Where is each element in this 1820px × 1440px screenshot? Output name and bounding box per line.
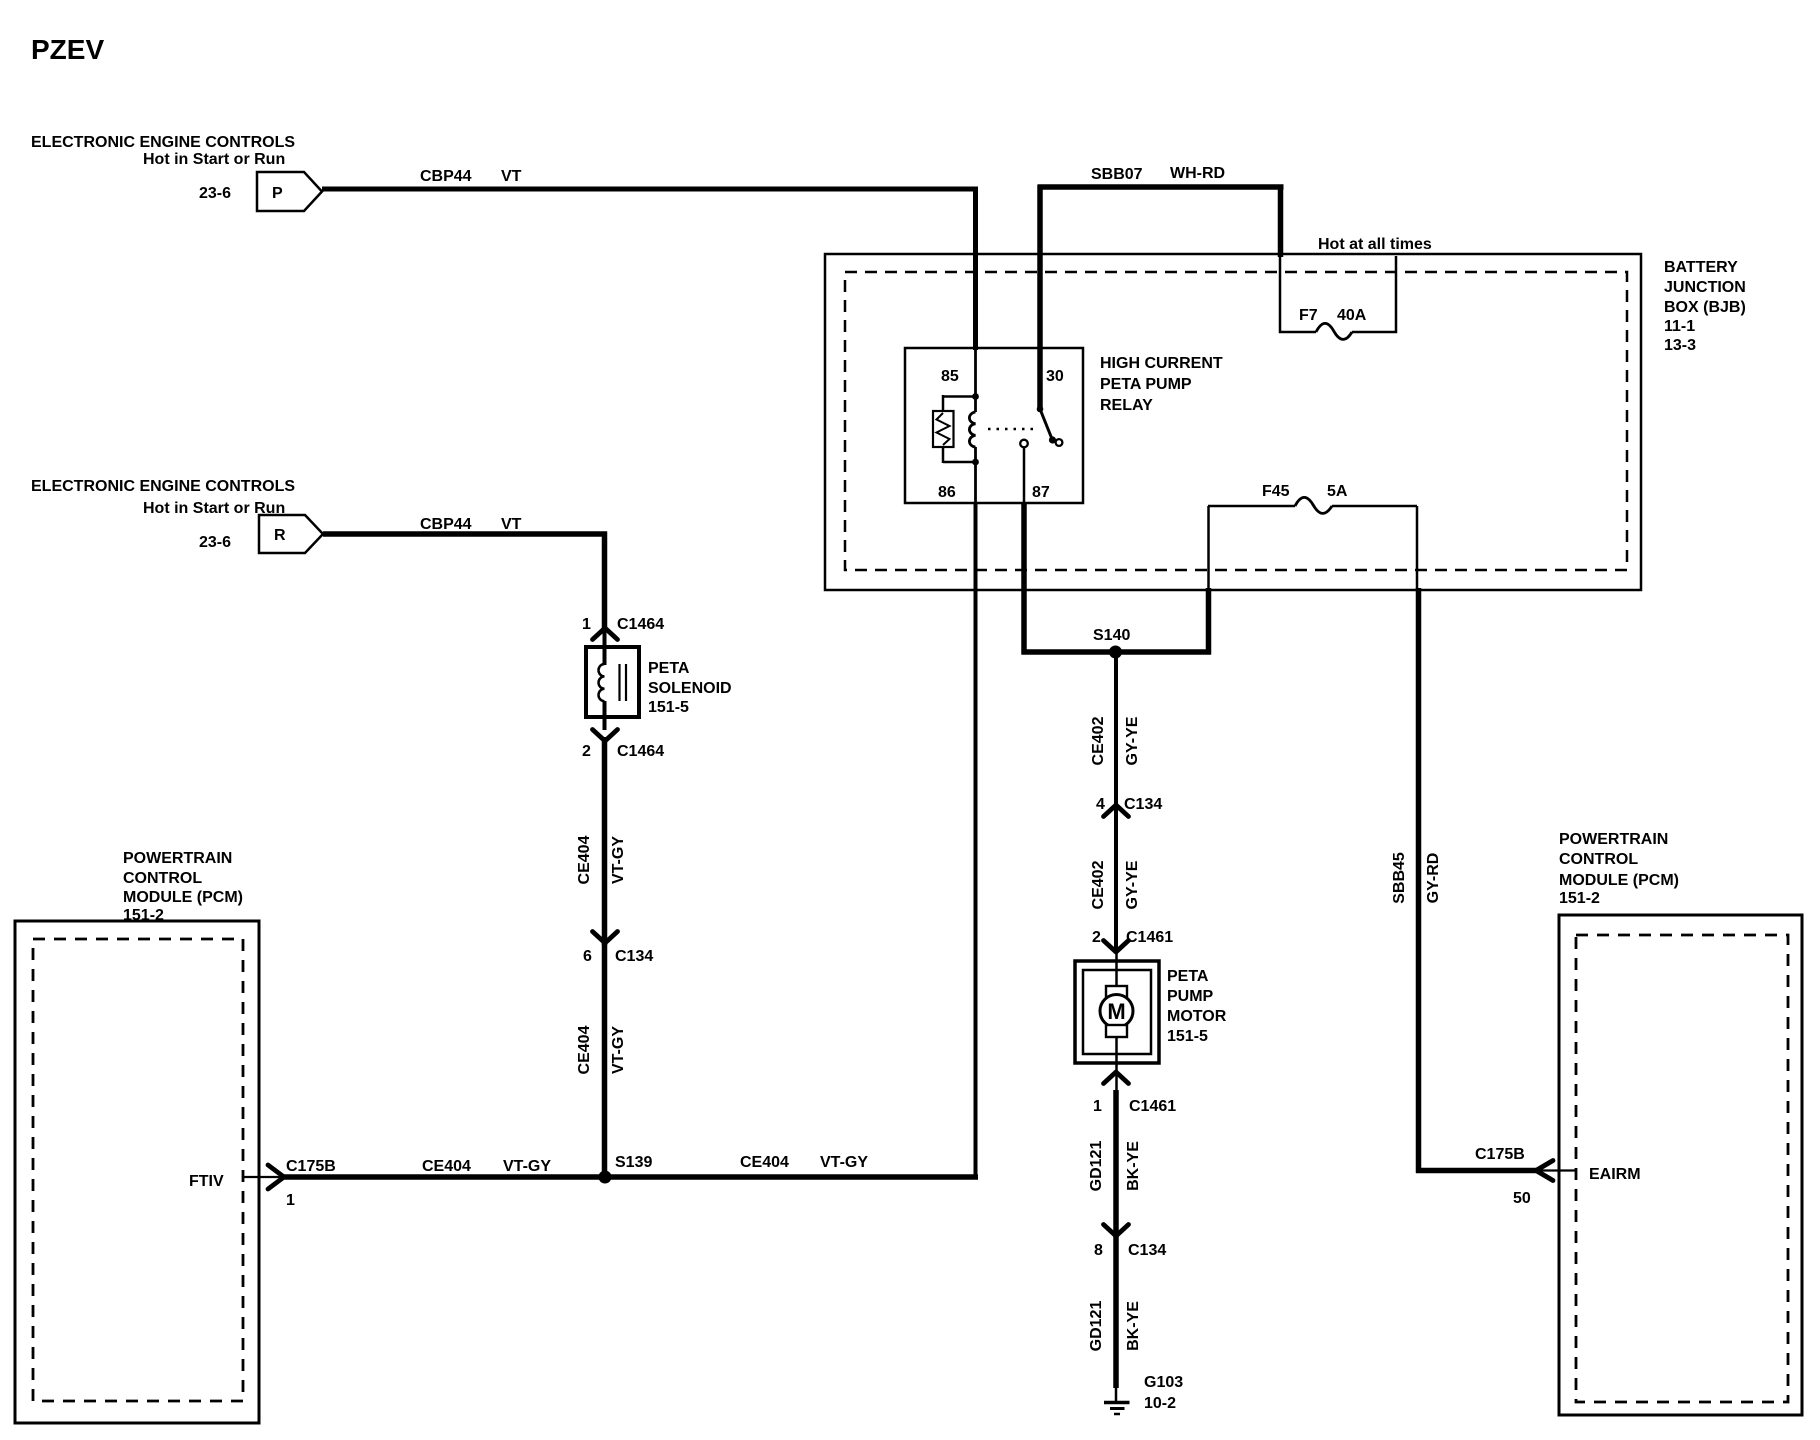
wire CE404 VT-GY FTIV to S139 bbox=[282, 1158, 607, 1177]
connector C175B pin 50 EAIRM arrow bbox=[1475, 1146, 1641, 1207]
svg-text:ELECTRONIC ENGINE CONTROLS: ELECTRONIC ENGINE CONTROLS bbox=[31, 478, 295, 495]
svg-text:C175B: C175B bbox=[1475, 1146, 1525, 1163]
wire CBP44 VT from R to solenoid bbox=[323, 516, 607, 630]
svg-text:VT-GY: VT-GY bbox=[610, 836, 627, 884]
svg-text:BOX (BJB): BOX (BJB) bbox=[1664, 299, 1746, 316]
svg-text:11-1: 11-1 bbox=[1664, 318, 1695, 335]
node: ELECTRONIC ENGINE CONTROLS feed (P) bbox=[31, 134, 295, 202]
svg-text:13-3: 13-3 bbox=[1664, 337, 1696, 354]
svg-text:85: 85 bbox=[941, 368, 959, 385]
svg-text:GY-RD: GY-RD bbox=[1425, 853, 1442, 904]
wire relay pin 87 to S140 bbox=[1023, 447, 1026, 654]
wire F45 to S140 bbox=[1206, 588, 1212, 655]
wire CE402 GY-YE C134 to C1461 bbox=[1090, 860, 1141, 909]
svg-text:CE402: CE402 bbox=[1090, 860, 1107, 909]
svg-text:GY-YE: GY-YE bbox=[1124, 860, 1141, 909]
wire CE402 GY-YE S140 to C134 bbox=[1090, 652, 1141, 952]
fuse F7 40A bbox=[1280, 256, 1396, 339]
svg-text:MODULE (PCM): MODULE (PCM) bbox=[123, 889, 243, 906]
svg-text:CONTROL: CONTROL bbox=[1559, 851, 1638, 868]
svg-text:PUMP: PUMP bbox=[1167, 988, 1214, 1005]
svg-text:CE402: CE402 bbox=[1090, 716, 1107, 765]
label PCM right bbox=[1559, 831, 1679, 907]
svg-text:C134: C134 bbox=[615, 948, 653, 965]
PETA pump motor bbox=[1075, 952, 1159, 1092]
splice S140 bbox=[1022, 627, 1212, 659]
svg-text:10-2: 10-2 bbox=[1144, 1395, 1176, 1412]
svg-text:C1464: C1464 bbox=[617, 616, 664, 633]
svg-text:86: 86 bbox=[938, 484, 956, 501]
svg-text:5A: 5A bbox=[1327, 483, 1348, 500]
svg-text:GY-YE: GY-YE bbox=[1124, 716, 1141, 765]
svg-text:BATTERY: BATTERY bbox=[1664, 259, 1738, 276]
svg-text:151-2: 151-2 bbox=[1559, 890, 1600, 907]
wire CBP44 VT from P to BJB bbox=[322, 168, 978, 189]
svg-text:SOLENOID: SOLENOID bbox=[648, 680, 732, 697]
svg-text:151-5: 151-5 bbox=[1167, 1028, 1208, 1045]
connector C1461 pin 2 bbox=[1092, 929, 1173, 952]
wire GD121 BK-YE motor to C134 bbox=[1088, 1090, 1142, 1237]
wire SBB07 WH-RD bbox=[1038, 165, 1284, 257]
svg-text:F45: F45 bbox=[1262, 483, 1290, 500]
svg-text:CE404: CE404 bbox=[422, 1158, 471, 1175]
svg-text:4: 4 bbox=[1096, 796, 1105, 813]
svg-text:151-5: 151-5 bbox=[648, 699, 689, 716]
connector C1464 pin 1 bbox=[582, 616, 664, 640]
svg-text:POWERTRAIN: POWERTRAIN bbox=[123, 850, 232, 867]
svg-text:2: 2 bbox=[582, 743, 591, 760]
wire into solenoid bbox=[603, 628, 607, 665]
relay box: HIGH CURRENT PETA PUMP RELAY bbox=[905, 348, 1083, 503]
wire CE404 VT-GY solenoid to C134 bbox=[576, 737, 627, 945]
svg-text:VT-GY: VT-GY bbox=[820, 1154, 868, 1171]
svg-text:F7: F7 bbox=[1299, 307, 1318, 324]
svg-text:C175B: C175B bbox=[286, 1158, 336, 1175]
svg-text:C1461: C1461 bbox=[1126, 929, 1173, 946]
svg-text:CBP44: CBP44 bbox=[420, 168, 472, 185]
wire GD121 BK-YE C134 to ground bbox=[1088, 1233, 1142, 1388]
relay pin 30 bbox=[1046, 368, 1064, 385]
relay pin 87 bbox=[1032, 484, 1050, 501]
label BATTERY JUNCTION BOX (BJB) bbox=[1664, 259, 1746, 354]
svg-text:CBP44: CBP44 bbox=[420, 516, 472, 533]
svg-text:FTIV: FTIV bbox=[189, 1173, 224, 1190]
svg-text:ELECTRONIC ENGINE CONTROLS: ELECTRONIC ENGINE CONTROLS bbox=[31, 134, 295, 151]
svg-text:MOTOR: MOTOR bbox=[1167, 1008, 1227, 1025]
svg-text:BK-YE: BK-YE bbox=[1125, 1301, 1142, 1351]
label PCM left bbox=[123, 850, 243, 924]
svg-text:8: 8 bbox=[1094, 1242, 1103, 1259]
svg-text:23-6: 23-6 bbox=[199, 185, 231, 202]
relay coil suppression resistor bbox=[933, 395, 976, 463]
svg-text:MODULE (PCM): MODULE (PCM) bbox=[1559, 872, 1679, 889]
label HIGH CURRENT PETA PUMP RELAY bbox=[1100, 355, 1223, 414]
svg-text:1: 1 bbox=[1093, 1098, 1102, 1115]
relay coil (pins 85-86) bbox=[969, 348, 978, 505]
connector C134 pin 6 bbox=[583, 932, 653, 966]
wire VT drop from BJB to S139 bus bbox=[974, 503, 978, 1180]
svg-text:VT-GY: VT-GY bbox=[610, 1026, 627, 1074]
svg-text:S140: S140 bbox=[1093, 627, 1130, 644]
svg-text:1: 1 bbox=[286, 1192, 295, 1209]
wire CE404 VT-GY S139 to BJB drop bbox=[605, 1154, 978, 1177]
svg-text:Hot in Start or Run: Hot in Start or Run bbox=[143, 151, 285, 168]
svg-text:C1461: C1461 bbox=[1129, 1098, 1176, 1115]
node: ELECTRONIC ENGINE CONTROLS feed (R) bbox=[31, 478, 295, 551]
connector C134 pin 4 bbox=[1096, 796, 1162, 817]
svg-text:WH-RD: WH-RD bbox=[1170, 165, 1225, 182]
svg-text:151-2: 151-2 bbox=[123, 907, 164, 924]
pin FTIV output arrow C175B pin 1 bbox=[189, 1158, 336, 1209]
svg-text:PETA: PETA bbox=[648, 660, 690, 677]
svg-text:PZEV: PZEV bbox=[31, 34, 104, 65]
connector C1464 pin 2 bbox=[582, 730, 664, 761]
svg-text:EAIRM: EAIRM bbox=[1589, 1166, 1641, 1183]
wire CE404 VT-GY C134 to S139 bbox=[576, 940, 627, 1180]
svg-text:RELAY: RELAY bbox=[1100, 397, 1153, 414]
svg-text:C134: C134 bbox=[1124, 796, 1162, 813]
svg-text:C134: C134 bbox=[1128, 1242, 1166, 1259]
connector C134 pin 8 bbox=[1094, 1225, 1166, 1260]
svg-text:S139: S139 bbox=[615, 1154, 652, 1171]
fuse F45 5A bbox=[1208, 483, 1417, 590]
svg-text:SBB45: SBB45 bbox=[1391, 852, 1408, 904]
svg-text:R: R bbox=[274, 527, 286, 544]
svg-text:CE404: CE404 bbox=[576, 1025, 593, 1074]
relay contact dotted link bbox=[988, 428, 1036, 431]
powertrain control module PCM (right) box bbox=[1559, 915, 1802, 1415]
splice S139 bbox=[599, 1154, 653, 1184]
svg-text:2: 2 bbox=[1092, 929, 1101, 946]
svg-text:40A: 40A bbox=[1337, 307, 1367, 324]
svg-text:CE404: CE404 bbox=[576, 835, 593, 884]
svg-text:POWERTRAIN: POWERTRAIN bbox=[1559, 831, 1668, 848]
svg-text:PETA: PETA bbox=[1167, 968, 1209, 985]
connector C1461 pin 1 bbox=[1093, 1072, 1176, 1115]
svg-text:PETA PUMP: PETA PUMP bbox=[1100, 376, 1192, 393]
svg-text:VT: VT bbox=[501, 168, 522, 185]
powertrain control module PCM (left) box bbox=[15, 921, 259, 1423]
svg-text:VT: VT bbox=[501, 516, 522, 533]
battery junction box (BJB) outline bbox=[825, 254, 1641, 590]
svg-text:M: M bbox=[1107, 999, 1125, 1024]
svg-text:VT-GY: VT-GY bbox=[503, 1158, 551, 1175]
ground G103 bbox=[1104, 1374, 1183, 1414]
svg-text:G103: G103 bbox=[1144, 1374, 1183, 1391]
wire relay pin 30 drop bbox=[1037, 185, 1043, 410]
relay switch (pin 30 to 87) bbox=[1020, 406, 1062, 448]
connector P bbox=[257, 172, 322, 211]
svg-text:HIGH CURRENT: HIGH CURRENT bbox=[1100, 355, 1223, 372]
label PETA PUMP MOTOR 151-5 bbox=[1167, 968, 1227, 1045]
svg-text:6: 6 bbox=[583, 948, 592, 965]
svg-text:30: 30 bbox=[1046, 368, 1064, 385]
svg-text:1: 1 bbox=[582, 616, 591, 633]
svg-text:BK-YE: BK-YE bbox=[1125, 1141, 1142, 1191]
svg-text:GD121: GD121 bbox=[1088, 1301, 1105, 1352]
svg-text:JUNCTION: JUNCTION bbox=[1664, 279, 1746, 296]
label Hot at all times bbox=[1318, 236, 1432, 253]
svg-text:SBB07: SBB07 bbox=[1091, 166, 1143, 183]
wire VT vertical drop into BJB (relay pin 85) bbox=[973, 187, 978, 351]
svg-text:C1464: C1464 bbox=[617, 743, 664, 760]
svg-text:Hot at all times: Hot at all times bbox=[1318, 236, 1432, 253]
relay pin 85 bbox=[941, 368, 959, 385]
connector R bbox=[259, 515, 323, 553]
label PETA SOLENOID 151-5 bbox=[648, 660, 732, 716]
svg-text:CE404: CE404 bbox=[740, 1154, 789, 1171]
svg-text:P: P bbox=[272, 185, 283, 202]
title PZEV bbox=[31, 34, 104, 65]
svg-text:GD121: GD121 bbox=[1088, 1141, 1105, 1192]
wire SBB45 GY-RD bbox=[1391, 588, 1536, 1173]
solenoid PETA SOLENOID bbox=[586, 647, 639, 730]
svg-text:87: 87 bbox=[1032, 484, 1050, 501]
svg-text:50: 50 bbox=[1513, 1190, 1531, 1207]
svg-text:23-6: 23-6 bbox=[199, 534, 231, 551]
relay pin 86 bbox=[938, 484, 956, 501]
svg-text:CONTROL: CONTROL bbox=[123, 870, 202, 887]
